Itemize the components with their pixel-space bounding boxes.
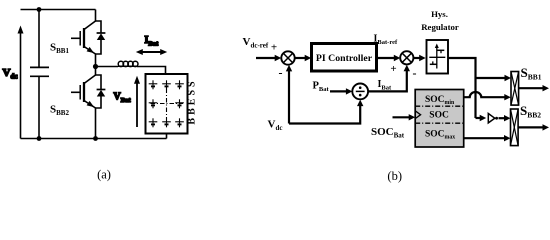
battery cell 2 [162, 80, 171, 89]
wire: hysteresis output down the distribution bus [448, 58, 476, 118]
hysteresis symbol [429, 44, 445, 69]
diode D1 (antiparallel with S_BB1) [96, 21, 106, 54]
SOC block divider 1 (dash-dot) [415, 105, 464, 107]
transistor Q2 (IGBT S_BB2) [71, 75, 96, 108]
capacitor C (DC-link) [30, 67, 49, 76]
wire capacitor bottom lead [38, 76, 40, 138]
V_Bat voltage annotation arrow [134, 76, 140, 127]
node: midpoint junction [93, 64, 98, 69]
wire: BBESS to bottom rail [166, 134, 168, 139]
wire: divider output up into summing junction 2 [368, 65, 410, 92]
svg-text:BBESS: BBESS [187, 78, 198, 124]
transistor Q1 (IGBT S_BB1) [71, 21, 96, 54]
wire: Vdc feedback riser into summing junction 1 [286, 65, 292, 124]
switch block X2 (SBB2 gating) [511, 109, 519, 146]
wire: P_Bat input arrow to divider [330, 88, 352, 94]
block: PI Controller [312, 44, 377, 72]
summing junction 2 [400, 51, 413, 64]
battery cell 7 [162, 118, 171, 127]
block: SOC limits (gray) [415, 90, 464, 148]
SOC block divider 2 (dash-dot) [415, 122, 464, 124]
battery cell 1 [149, 80, 158, 89]
svg-text:Regulator: Regulator [421, 22, 459, 32]
wire: PI controller to summing junction 2 [377, 55, 401, 61]
wire: SOC_min enable to SBB1 switch block with crossover hop [464, 92, 511, 100]
summing junction 1 [281, 51, 294, 64]
wire: summing junction 2 to hysteresis regulator [413, 55, 425, 61]
wire: inverter to SBB2 switch block (input 1) [499, 115, 511, 121]
wire: SBB2 output arrow [518, 124, 549, 130]
svg-text:+: + [390, 63, 396, 75]
node: bottom rail / capacitor junction [37, 136, 42, 141]
battery array continuation dash-dot lines [151, 89, 184, 119]
diode D2 (antiparallel with S_BB2) [96, 75, 106, 108]
battery cell 6 [149, 118, 158, 127]
battery cell 5 [175, 99, 184, 108]
wire: Vdc feed to divider bottom [289, 100, 363, 124]
wire: bus corner to inverter [476, 115, 487, 121]
divider block (P/V) [352, 84, 368, 100]
inductor L (filter) [118, 61, 138, 66]
wire: DC bus bottom rail [21, 138, 167, 140]
battery cell 3 [175, 80, 184, 89]
node: top rail / capacitor junction [37, 7, 42, 12]
svg-text:Hys.: Hys. [431, 9, 448, 19]
switch block X1 (SBB1 gating) [511, 72, 519, 106]
svg-text:-: - [279, 66, 283, 80]
svg-text:SOC: SOC [429, 111, 449, 121]
wire: top rail to SBB1 collector [95, 10, 97, 22]
svg-text:PI Controller: PI Controller [316, 53, 373, 64]
wire: SBB1 emitter to midpoint [95, 54, 97, 75]
wire: Vdc-ref input arrow [256, 55, 281, 61]
node: bottom rail / leg junction [93, 136, 98, 141]
wire: inductor to BBESS [137, 67, 166, 75]
wire: SBB1 output arrow [519, 85, 549, 91]
wire: SOC_max enable to SBB2 switch block [464, 135, 511, 141]
battery cell 4 [149, 99, 158, 108]
I_Bat bidirectional current arrow [136, 49, 167, 55]
svg-text:(a): (a) [97, 168, 111, 182]
wire: midpoint to inductor [96, 66, 119, 68]
svg-text:+: + [271, 42, 277, 54]
svg-text:-: - [413, 66, 417, 80]
block: hysteresis regulator [427, 40, 449, 74]
battery box BBESS [146, 74, 188, 134]
inverter bubble [495, 117, 498, 120]
inverter (NOT) triangle [488, 114, 495, 123]
svg-text:(b): (b) [387, 169, 402, 183]
wire: gate signal to SBB1 switch block (input 1) [476, 75, 512, 81]
battery cell 8 [175, 118, 184, 127]
SOC input chevron [415, 111, 420, 119]
wire: summing junction 1 to PI controller [295, 55, 312, 61]
wire: DC bus top rail [21, 9, 96, 11]
wire: SBB2 emitter to bottom rail [95, 108, 97, 139]
wire: SOC_Bat input arrow [393, 114, 416, 120]
Vdc voltage annotation arrow [18, 26, 24, 139]
wire capacitor top lead [38, 10, 40, 68]
